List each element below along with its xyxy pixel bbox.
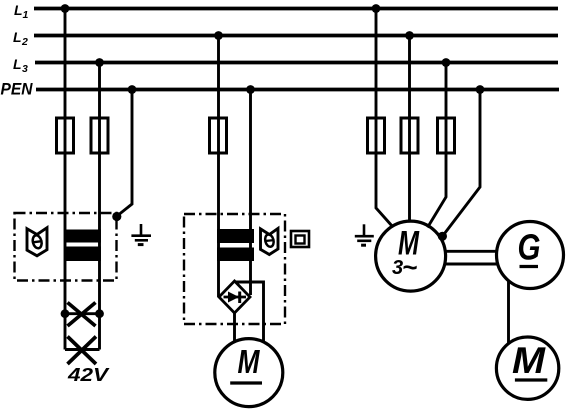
node: lamp rail left [61,309,70,318]
node: PEN connection on left enclosure corner [112,212,121,221]
node: junction L2 / right wire [405,31,414,40]
wire: rectifier DC minus to motor [233,312,236,342]
wire: middle circuit PEN drop [249,90,252,296]
wire: PEN drop to left enclosure [117,90,132,217]
motor M1 (DC motor, middle) [215,339,283,407]
svg-text:3: 3 [22,63,28,75]
motor M3 (DC motor, bottom right) [496,337,558,399]
node: junction L2 / middle wire [214,31,223,40]
wire: right circuit phase L2 [408,36,411,223]
svg-text:42V: 42V [67,365,111,385]
svg-text:M: M [512,340,546,381]
node: PEN connection on motor frame [438,232,447,241]
fuse F5 [401,118,418,153]
node: lamp rail right [95,309,104,318]
node: junction L3 / right wire [442,58,451,67]
lamp E1 (cross) [68,303,96,327]
transformer T1 primary winding bar [64,230,101,243]
svg-text:L: L [13,29,22,45]
wire: coupling link upper (motor to generator) [445,250,498,253]
motor M2 (three-phase motor) [376,221,446,291]
svg-text:G: G [518,227,541,268]
wire: generator to DC motor M3 [507,281,510,343]
node: junction L1 / wire1 [61,4,70,13]
label L3 [13,56,28,75]
fuse F1 [57,118,74,153]
transformer T1 secondary winding bar [64,247,101,262]
diode symbol inside rectifier [224,292,247,304]
svg-text:L: L [13,56,22,72]
rectifier bridge V1 (diamond) [219,281,250,313]
lamp E2 (cross) [68,337,97,365]
label 42V [67,365,111,385]
node: junction PEN / right wire [476,85,485,94]
svg-text:M: M [238,343,261,380]
node: junction PEN / left drop [128,85,137,94]
wire: right circuit phase L1 [376,9,393,227]
generator G1 [497,222,564,289]
svg-text:L: L [14,2,23,18]
wire: right circuit PEN drop [443,90,480,236]
wire: right circuit phase L3 [428,63,447,228]
ground (earth) at left enclosure [131,224,151,245]
fuse F4 [368,118,385,153]
wire: left circuit phase 2 (L3 down to lamp line) [98,63,101,350]
wire: rectifier DC plus to motor [236,282,264,342]
label L1 [14,2,29,21]
transformer T2 primary winding bar [217,229,254,243]
wire: middle circuit phase (L2 down to rectifier) [217,36,220,298]
svg-text:1: 1 [23,9,29,21]
bus L2 [34,34,558,38]
bus PEN [36,88,559,92]
svg-text:PEN: PEN [1,81,34,99]
node: junction PEN / middle wire [246,85,255,94]
svg-text:2: 2 [21,36,28,48]
transformer T2 secondary winding bar [217,248,254,262]
label PEN [1,81,34,99]
svg-text:~: ~ [402,252,417,282]
node: junction L3 / wire2 [95,58,104,67]
enclosure box, middle transformer (dash-dot) [184,214,285,324]
thermal protection symbol (theta shield), middle [261,228,279,254]
enclosure box, left transformer (dash-dot) [15,213,117,281]
node: junction L1 / right wire [372,4,381,13]
class II insulation symbol (square in square) [291,231,309,247]
wire: lamp rail upper [65,312,100,315]
fuse F2 [91,118,108,153]
label L2 [13,29,28,48]
bus L3 [35,61,558,65]
thermal protection symbol (theta shield), left [27,228,47,256]
wire: left circuit phase 1 (L1 down to lamp line) [64,9,67,350]
bus L1 [34,7,558,11]
wire: coupling link lower (motor to generator) [445,263,498,266]
fuse F6 [438,118,455,153]
ground (earth) at motor M2 [355,224,374,245]
wire: lamp rail lower [65,348,100,351]
fuse F3 [210,118,227,153]
